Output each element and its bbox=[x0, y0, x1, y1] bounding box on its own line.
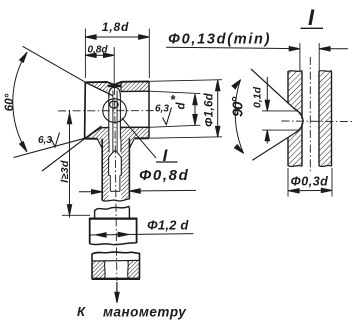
90-deg cone lines bbox=[251, 69, 294, 109]
stem right wall hatched bbox=[121, 138, 129, 199]
inner tube walls bbox=[109, 175, 111, 191]
detail left wall hatched bbox=[288, 72, 302, 119]
drill recess dome in top of bore bbox=[109, 87, 121, 96]
lower fitting hatched right block bbox=[128, 260, 140, 278]
svg-text:0,8d: 0,8d bbox=[87, 45, 108, 56]
svg-text:Φ0,3d: Φ0,3d bbox=[291, 175, 329, 189]
svg-text:манометру: манометру bbox=[103, 305, 187, 320]
union nut wavy bottom edge bbox=[90, 243, 137, 245]
90-deg arc with arrows bbox=[235, 80, 243, 154]
spherical recess oval at hole junction bbox=[110, 101, 119, 108]
dimension d with roughness 6,3 bbox=[149, 91, 200, 93]
lower fitting thick bottom edge bbox=[92, 278, 140, 280]
dimension 1,8d bbox=[84, 29, 86, 79]
svg-text:Φ0,13d(min): Φ0,13d(min) bbox=[168, 32, 271, 48]
main view: hatched top-left cone wall bbox=[85, 82, 108, 94]
dimension 0,1d bbox=[262, 110, 298, 112]
detail right wall wavy ends bbox=[319, 71, 332, 72]
tube left face rim bbox=[84, 82, 87, 138]
tube top outer edge with weld V-notch bbox=[85, 81, 149, 85]
small hole (0,13d) walls bbox=[112, 91, 114, 153]
stem bore walls lower bbox=[108, 157, 110, 175]
roughness 6,3 leader lower-left bbox=[42, 126, 102, 171]
stem bore 0,3d walls upper bbox=[108, 139, 110, 153]
main view: hatched bottom-left wall band bbox=[85, 128, 110, 139]
detail left wall edges bbox=[287, 71, 289, 103]
tube right end edge bbox=[148, 81, 150, 138]
main view: hatched bottom-right wall band bbox=[121, 127, 149, 138]
svg-text:6,3: 6,3 bbox=[38, 135, 52, 146]
stem bottom wavy break bbox=[102, 199, 129, 201]
main view: hatched top-right wall band bbox=[121, 81, 149, 91]
weld fillet right bbox=[129, 138, 134, 148]
tap hole outer walls through bore bbox=[108, 95, 110, 139]
detail right wall hatched bbox=[319, 72, 332, 166]
dimension 0,8d bbox=[85, 54, 114, 56]
detail I callout leader bbox=[122, 118, 156, 158]
stem left wall hatched bbox=[102, 139, 109, 201]
dimension l>=3d bbox=[69, 110, 71, 218]
svg-text:90°: 90° bbox=[230, 96, 247, 117]
tube bottom outer edge left bbox=[85, 138, 98, 140]
svg-text:d: d bbox=[176, 102, 188, 110]
detail I circle bbox=[103, 99, 127, 123]
inner tube end bbox=[110, 190, 120, 192]
60-deg leader lines and arc bbox=[23, 46, 86, 82]
detail vertical centerline bbox=[309, 57, 311, 173]
dimension F0,13d(min) leader bbox=[166, 47, 296, 48]
dimension F0,8d bbox=[79, 191, 102, 193]
vertical centerline of tap hole bbox=[115, 87, 117, 281]
dimension F1,2d bbox=[91, 234, 194, 235]
svg-text:6,3: 6,3 bbox=[155, 104, 169, 115]
60-deg cone lower surface bbox=[85, 128, 102, 139]
svg-text:l≥3d: l≥3d bbox=[59, 160, 71, 183]
svg-text:К: К bbox=[77, 304, 86, 319]
weld pool dark blob under V-notch bbox=[108, 85, 121, 88]
svg-text:0,1d: 0,1d bbox=[252, 86, 264, 108]
spherical cap of recess bbox=[294, 108, 303, 133]
svg-text:Φ1,2 d: Φ1,2 d bbox=[147, 218, 189, 233]
tube bottom outer edge right bbox=[134, 137, 149, 139]
top band inner left edge bbox=[120, 82, 122, 92]
coupling nipple with wavy top bbox=[95, 206, 130, 218]
dimension F0,3d bbox=[287, 168, 289, 197]
lower fitting interior line bbox=[92, 259, 140, 262]
60-deg cone upper surface bbox=[85, 82, 112, 95]
bore top line bbox=[121, 90, 149, 92]
svg-text:I: I bbox=[308, 5, 315, 30]
union nut rectangle (1,2d) bbox=[90, 218, 137, 243]
main horizontal centerline bbox=[58, 110, 160, 112]
svg-text:1,8d: 1,8d bbox=[102, 20, 129, 34]
drill flare cone bbox=[109, 152, 122, 157]
drill point tip bbox=[113, 150, 117, 152]
bore bottom line left bbox=[101, 127, 109, 129]
lower fitting hatched left block bbox=[92, 261, 105, 279]
stem outer edges bbox=[101, 139, 103, 201]
detail left wall wavy ends bbox=[288, 71, 303, 72]
detail horizontal centerline bbox=[282, 120, 353, 123]
bore bottom line right bbox=[121, 126, 149, 128]
arrow to manometer bbox=[116, 282, 118, 300]
weld fillet left bbox=[97, 139, 102, 149]
svg-text:60°: 60° bbox=[4, 93, 16, 111]
inner tube step ticks bbox=[109, 174, 122, 176]
svg-text:Φ0,8d: Φ0,8d bbox=[139, 167, 189, 184]
lower fitting body bbox=[92, 252, 140, 279]
dimension F1,6d bbox=[149, 80, 222, 82]
detail right wall edges bbox=[318, 71, 320, 165]
detail title underline bbox=[301, 27, 324, 29]
svg-text:Φ1,6d: Φ1,6d bbox=[204, 92, 216, 127]
